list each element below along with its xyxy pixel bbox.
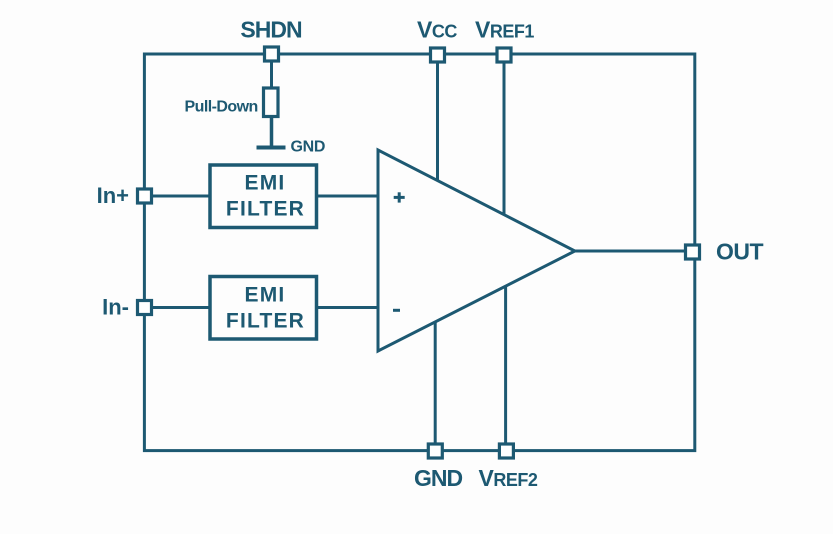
- input marker (393, 309, 400, 312)
wire: GND stub from bottom of comparator (434, 322, 437, 448)
ground symbol (257, 146, 286, 150)
pin VREF2 (499, 444, 513, 458)
EMI filter block 1 (210, 165, 317, 228)
svg-text:GND: GND (291, 139, 326, 156)
svg-text:FILTER: FILTER (226, 197, 305, 220)
op-amp comparator triangle (378, 150, 575, 351)
svg-text:VREF2: VREF2 (479, 465, 538, 491)
wire: Vref1 stub into top of comparator (503, 60, 506, 215)
svg-text:In-: In- (102, 295, 129, 320)
wire: SHDN stub to pull-down resistor (270, 60, 273, 90)
wire: In- pin to EMI filter 2 (152, 306, 212, 309)
wire: EMI filter 2 to comparator - input (315, 306, 379, 309)
EMI filter block 2 (210, 277, 317, 340)
svg-text:SHDN: SHDN (240, 17, 302, 43)
pin GND (428, 444, 442, 458)
svg-text:VREF1: VREF1 (475, 17, 534, 43)
svg-text:GND: GND (414, 465, 463, 491)
pin OUT (686, 245, 700, 259)
wire: Vref2 stub from bottom of comparator (504, 287, 507, 449)
resistor R pull-down (264, 88, 279, 117)
wire: EMI filter 1 to comparator + input (315, 195, 379, 198)
svg-text:OUT: OUT (716, 239, 764, 265)
pin VREF1 (497, 48, 511, 62)
svg-text:FILTER: FILTER (226, 309, 305, 332)
pin VCC (431, 48, 445, 62)
svg-text:Pull-Down: Pull-Down (185, 99, 258, 116)
svg-text:EMI: EMI (245, 171, 286, 194)
IC boundary wire (outer rectangle) (144, 54, 694, 451)
+ input marker (394, 192, 405, 202)
pin In- (138, 301, 152, 315)
wire: In+ pin to EMI filter 1 (152, 195, 212, 198)
svg-text:In+: In+ (97, 183, 129, 208)
wire: comparator output to OUT pin (573, 250, 685, 253)
wire: Vcc stub into top of comparator (436, 60, 439, 181)
pin SHDN (265, 47, 279, 61)
wire: resistor to ground (270, 118, 274, 146)
svg-text:EMI: EMI (245, 283, 286, 306)
svg-text:VCC: VCC (417, 17, 457, 43)
pin In+ (138, 189, 152, 203)
